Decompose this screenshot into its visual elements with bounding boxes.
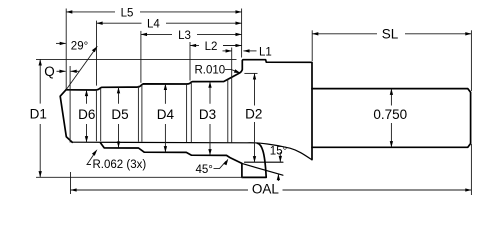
L4 extension line (96, 21, 98, 86)
D5 dimension (118, 87, 120, 104)
L2 extension line (189, 42, 191, 81)
svg-text:L4: L4 (147, 19, 160, 31)
D1 top extension line (36, 58, 237, 60)
step boundary line pair T3 (227, 79, 229, 142)
15 deg reference line (245, 161, 283, 163)
svg-text:29°: 29° (71, 40, 88, 52)
svg-text:D3: D3 (199, 107, 216, 122)
svg-text:D2: D2 (245, 106, 262, 121)
svg-text:15°: 15° (270, 146, 287, 158)
svg-text:45°: 45° (196, 164, 213, 176)
L5 dimension (66, 11, 115, 13)
flute land line sweeping into shank (72, 142, 311, 159)
OAL dimension (71, 189, 249, 191)
29 deg angled line with arrowhead (66, 46, 97, 89)
svg-text:Q: Q (44, 64, 55, 79)
svg-text:L5: L5 (121, 7, 134, 19)
15 deg sloped line (242, 164, 283, 176)
15 deg up arrow to sloped line (277, 174, 279, 181)
step boundary line pair T0 (95, 89, 97, 141)
L3 dimension (141, 33, 172, 35)
svg-text:OAL: OAL (252, 181, 280, 196)
svg-text:L3: L3 (178, 30, 191, 42)
SL dimension (312, 33, 377, 35)
D1 dimension (39, 59, 41, 103)
shank outline (312, 89, 471, 148)
top profile flats/ramps (66, 60, 312, 160)
svg-text:0.750: 0.750 (373, 107, 407, 122)
svg-text:L1: L1 (259, 46, 272, 58)
0.750 dimension (390, 89, 392, 106)
D4 dimension (164, 84, 166, 104)
svg-text:D6: D6 (78, 107, 95, 122)
29 deg leader arrow (56, 42, 66, 44)
L1 dimension with outside arrows (223, 50, 232, 52)
svg-text:R.010: R.010 (195, 65, 226, 77)
part outline: top profile (tip chamfer, stepped flats and ramps, crest land, collar) (60, 90, 72, 143)
OAL right extension line (470, 144, 472, 195)
svg-text:R.062 (3x): R.062 (3x) (93, 159, 147, 171)
Q dimension outside arrows (57, 70, 66, 72)
D2 dimension (254, 73, 256, 105)
right common extension line (241, 9, 243, 58)
OAL left extension line (70, 172, 72, 194)
step boundary line pair T1 (137, 86, 139, 142)
L1 left extension line (231, 48, 233, 143)
svg-text:D1: D1 (30, 106, 47, 121)
svg-text:L2: L2 (205, 41, 218, 53)
svg-text:D4: D4 (157, 107, 175, 122)
D2 top extension line (244, 72, 257, 74)
svg-text:SL: SL (382, 27, 399, 42)
bottom stepped flute profile (101, 143, 267, 177)
15 deg down arrow to reference line (279, 152, 281, 162)
SL extension lines (311, 30, 313, 61)
D6 dimension (86, 90, 88, 104)
tip land boundary line (69, 66, 71, 143)
L2 dimension (190, 45, 199, 47)
L4 dimension (97, 22, 142, 24)
L5 extension line (65, 9, 67, 90)
D1 bottom extension line (36, 176, 243, 178)
step boundary line pair T2 (186, 84, 188, 142)
L3 extension line (140, 31, 142, 83)
D3 dimension (209, 82, 211, 104)
svg-text:D5: D5 (111, 107, 128, 122)
